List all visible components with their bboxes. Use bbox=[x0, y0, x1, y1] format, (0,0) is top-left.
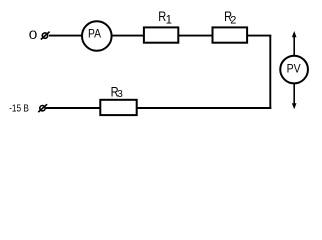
voltmeter PV bbox=[280, 56, 308, 84]
svg-text:1: 1 bbox=[166, 15, 172, 27]
wire R1 to R2 bbox=[179, 35, 212, 37]
terminal input 0 bbox=[41, 32, 50, 40]
svg-text:-15 В: -15 В bbox=[9, 102, 29, 114]
wire R3 to terminal bbox=[46, 107, 100, 109]
resistor R1 bbox=[144, 8, 178, 43]
svg-text:PV: PV bbox=[287, 62, 301, 76]
svg-text:0: 0 bbox=[29, 29, 38, 42]
svg-text:3: 3 bbox=[117, 89, 123, 100]
resistor R2 bbox=[213, 8, 248, 43]
wire right vertical drop bbox=[269, 36, 271, 109]
wire PV probe down bbox=[292, 84, 297, 109]
wire PV probe up bbox=[292, 31, 297, 55]
svg-text:PA: PA bbox=[88, 27, 101, 41]
wire PA to R1 bbox=[112, 35, 144, 37]
wire terminal to PA bbox=[49, 35, 83, 37]
resistor R3 bbox=[100, 83, 136, 115]
terminal input -15V bbox=[38, 104, 47, 112]
svg-text:2: 2 bbox=[230, 15, 236, 27]
wire bottom corner to R3 bbox=[137, 107, 271, 109]
ammeter PA bbox=[82, 21, 112, 51]
wire R2 to corner node bbox=[248, 35, 271, 37]
